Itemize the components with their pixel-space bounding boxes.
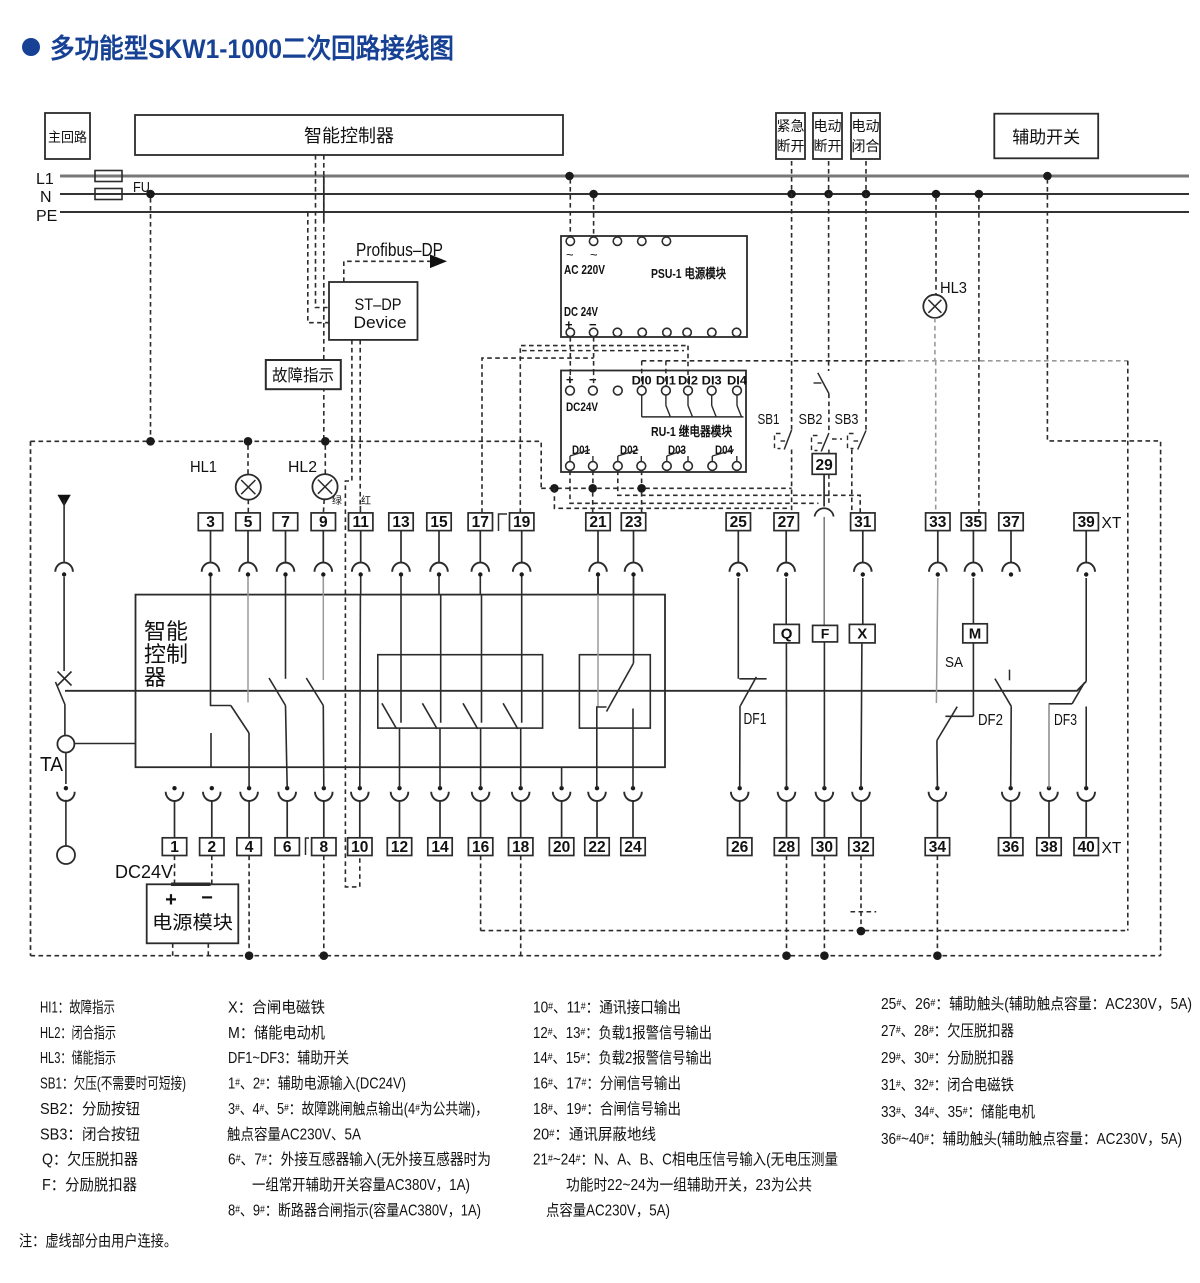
box: emergency-open button 紧急断开: [776, 113, 805, 159]
svg-text:X：合闸电磁铁: X：合闸电磁铁: [228, 999, 325, 1017]
svg-text:12: 12: [391, 839, 408, 856]
connector plug under terminal 15: [438, 531, 440, 563]
wire: module out b: [207, 943, 209, 955]
svg-text:XT: XT: [1102, 840, 1122, 857]
terminal 25 box: [726, 513, 750, 531]
wire: terminal 32 drop: [860, 856, 862, 932]
box: intelligent controller top 智能控制器: [135, 115, 563, 155]
svg-text:31: 31: [854, 514, 872, 531]
wire: L1 tap right loop to bottom bus: [1047, 179, 1160, 956]
wire: bus y488 to SB1: [541, 487, 791, 489]
connector plug under terminal 31: [862, 531, 864, 563]
svg-text:注：虚线部分由用户连接。: 注：虚线部分由用户连接。: [19, 1232, 177, 1250]
node: SB1 N tap: [787, 190, 796, 199]
wire: PSU+ down to RU+: [569, 337, 571, 386]
node: term35 N tap: [975, 190, 984, 199]
svg-text:1#、2#：辅助电源输入(DC24V): 1#、2#：辅助电源输入(DC24V): [228, 1075, 406, 1093]
svg-text:F：分励脱扣器: F：分励脱扣器: [42, 1176, 137, 1194]
connector plug under terminal 19: [521, 531, 523, 563]
svg-text:智能: 智能: [144, 619, 188, 644]
wire: j1 to bus508 to SB1: [554, 488, 789, 508]
svg-text:电动: 电动: [852, 118, 880, 134]
coil Q undervoltage release: [774, 624, 799, 643]
wire: terminal 5 fixed contact: [247, 595, 249, 703]
wire: terminal 39 feed: [1085, 578, 1087, 681]
wire: aux contact to SB2: [828, 394, 830, 434]
node: bus955 j4: [245, 951, 254, 960]
wire: RU D01a to bus503: [570, 471, 819, 504]
wire: PSU aux dashed segment: [522, 350, 684, 352]
terminal 34 box: [925, 838, 949, 856]
svg-text:DF1~DF3：辅助开关: DF1~DF3：辅助开关: [228, 1049, 349, 1067]
wire: RU D02b drop: [641, 471, 643, 489]
wire: F to terminal 30: [823, 642, 825, 788]
terminal 18 box: [509, 838, 533, 856]
connector plug above terminal 34: [935, 786, 939, 790]
transformer TA primary circle: [57, 736, 74, 753]
wire: module out a: [172, 943, 174, 955]
arrow: incoming feeder: [57, 495, 70, 507]
svg-text:PE: PE: [36, 208, 57, 225]
terminal 14 box: [428, 838, 452, 856]
wire: relay1 top feed 13: [400, 595, 402, 723]
terminal 39 box: [1074, 513, 1098, 531]
connector plug under terminal 33: [937, 531, 939, 563]
terminal 5 box: [236, 513, 260, 531]
svg-text:36: 36: [1002, 839, 1020, 856]
fuse FU on N: [95, 189, 122, 200]
pins: PSU bottom: [566, 328, 574, 336]
terminal 32 box: [849, 838, 873, 856]
wire: motor-open drop: [828, 161, 830, 371]
connector plug above terminal 16: [478, 786, 482, 790]
wire: bottom bus y955: [31, 955, 1161, 957]
switches: DI inputs: [641, 395, 643, 417]
svg-text:27#、28#：欠压脱扣器: 27#、28#：欠压脱扣器: [881, 1022, 1014, 1040]
wire: HL2 drop: [324, 445, 326, 474]
connector plug above terminal 1: [172, 786, 176, 790]
svg-text:~: ~: [566, 247, 574, 262]
box: main-circuit 主回路: [45, 113, 90, 159]
svg-text:器: 器: [144, 665, 166, 690]
wire: terminal 21 inner gray: [597, 578, 599, 595]
wire: relay1 top feed 17: [481, 595, 483, 723]
terminal 16 box: [468, 838, 492, 856]
node: lamp bus HL1 junction: [244, 437, 253, 446]
terminal 17 box: [468, 513, 492, 531]
box: DC24V power module 电源模块: [147, 884, 239, 943]
svg-text:功能时22~24为一组辅助开关，23为公共: 功能时22~24为一组辅助开关，23为公共: [566, 1176, 812, 1194]
svg-text:SB3: SB3: [835, 411, 859, 428]
arrowhead profibus: [430, 255, 447, 269]
terminal 29 box: [812, 454, 836, 475]
svg-text:32: 32: [852, 839, 869, 856]
box: PSU-1 power module: [561, 236, 747, 337]
wire: right vertical x1128: [1127, 361, 1129, 931]
switch SB1 undervoltage release button: [784, 430, 791, 450]
connector plug under terminal 37: [1010, 531, 1012, 563]
transformer TA secondary circle: [57, 846, 75, 864]
terminal 37 box: [999, 513, 1023, 531]
wire: SB2 dashed beside 29: [828, 450, 830, 454]
box: motor-close button 电动闭合: [851, 113, 880, 159]
wire: terminal 6 inner: [286, 706, 288, 789]
wire: PSU+ branch to terminal 19: [520, 346, 688, 513]
wire: terminal 9 feed: [322, 595, 324, 680]
lamp HL2: [312, 474, 337, 499]
wire: plug29 to F: [823, 517, 825, 626]
node: PSU N tap: [589, 190, 598, 199]
svg-text:SA: SA: [945, 654, 963, 671]
terminal 7 box: [273, 513, 297, 531]
terminal 2 box: [200, 838, 224, 856]
wire: relay1 top feed 19: [521, 595, 523, 723]
svg-text:9: 9: [319, 514, 328, 531]
node: bus488 j1: [550, 484, 559, 493]
connector plug above terminal 30: [822, 786, 826, 790]
connector plug under terminal 35: [972, 531, 974, 563]
connector plug above terminal 24: [631, 786, 635, 790]
connector plug above terminal 10: [358, 786, 362, 790]
node: FU junction on N: [146, 190, 155, 199]
svg-text:39: 39: [1078, 514, 1096, 531]
node: bus955 j34: [933, 951, 942, 960]
wire: emergency-open drop to SB1: [791, 161, 793, 430]
terminal 23 box: [621, 513, 645, 531]
svg-text:HL2：闭合指示: HL2：闭合指示: [40, 1024, 116, 1042]
wire: pivot to terminal 22: [597, 707, 607, 788]
svg-text:智能控制器: 智能控制器: [304, 126, 394, 146]
wire: RU D01b drop: [592, 471, 594, 489]
svg-text:RU-1 继电器模块: RU-1 继电器模块: [651, 424, 733, 439]
connector plug above terminal 4: [247, 786, 251, 790]
svg-text:34: 34: [929, 839, 947, 856]
svg-text:HL3: HL3: [940, 280, 967, 297]
svg-text:断开: 断开: [777, 138, 805, 154]
connector: TA plug: [64, 786, 68, 790]
wire: terminal 3 feed: [211, 595, 231, 706]
wire: PSU- down to RU-: [593, 337, 595, 386]
connector plug above terminal 22: [595, 786, 599, 790]
switch: relay contact 19-18: [503, 703, 518, 729]
connector plug above terminal 26: [738, 786, 742, 790]
tick: crossover mark on 32 drop: [851, 911, 877, 913]
svg-text:11: 11: [353, 514, 370, 531]
svg-text:点容量AC230V，5A): 点容量AC230V，5A): [546, 1201, 670, 1219]
node: bus955 j30: [820, 951, 829, 960]
box: motor-open button 电动断开: [813, 113, 842, 159]
wire: controller drop x315.5 to ST-DP: [316, 155, 330, 308]
connector: feeder plug: [55, 563, 73, 572]
connector: terminal 29 plug: [815, 508, 834, 516]
svg-text:紧急: 紧急: [777, 118, 805, 134]
connector plug above terminal 6: [285, 786, 289, 790]
wire: HL3 drop: [935, 197, 937, 295]
terminal 15 box: [427, 513, 451, 531]
terminal 10 box: [348, 838, 372, 856]
svg-text:15: 15: [430, 514, 448, 531]
connector plug above terminal 2: [210, 786, 214, 790]
svg-text:DC24V: DC24V: [115, 861, 174, 882]
svg-text:8#、9#：断路器合闸指示(容量AC380V，1A): 8#、9#：断路器合闸指示(容量AC380V，1A): [228, 1201, 481, 1219]
connector plug above terminal 38: [1047, 786, 1051, 790]
connector plug above terminal 36: [1009, 786, 1013, 790]
terminal 40 box: [1074, 838, 1098, 856]
wire: terminal 8 inner: [322, 706, 325, 789]
wire: PE drop x307.8 to ST-DP: [308, 212, 329, 323]
wire: N rail: [60, 193, 1189, 195]
terminal 6 box: [275, 838, 299, 856]
node: bus488 j2 D01b: [588, 484, 597, 493]
svg-text:29#、30#：分励脱扣器: 29#、30#：分励脱扣器: [881, 1049, 1014, 1067]
svg-text:38: 38: [1040, 839, 1058, 856]
switch: relay contact 17-16: [463, 703, 478, 729]
wire: terminal 8 drop: [323, 856, 325, 956]
svg-text:DF2: DF2: [978, 712, 1003, 729]
node: PSU L1 tap: [565, 172, 574, 181]
terminal 31 box: [851, 513, 875, 531]
svg-text:L1: L1: [36, 171, 54, 188]
svg-text:1: 1: [170, 839, 179, 856]
switch: contact 9-8: [306, 678, 323, 706]
svg-text:3#、4#、5#：故障跳闸触点输出(4#为公共端)，: 3#、4#、5#：故障跳闸触点输出(4#为公共端)，: [228, 1100, 488, 1118]
svg-text:16#、17#：分闸信号输出: 16#、17#：分闸信号输出: [533, 1075, 681, 1093]
wire: terminal 35 to M: [972, 578, 974, 624]
wire: relay1 bottom 18: [520, 728, 522, 788]
svg-text:Q: Q: [781, 626, 793, 643]
svg-text:6#、7#：外接互感器输入(无外接互感器时为: 6#、7#：外接互感器输入(无外接互感器时为: [228, 1151, 491, 1169]
svg-text:13: 13: [392, 514, 410, 531]
wire: terminal 40 tail: [1085, 707, 1087, 789]
connector plug above terminal 20: [559, 786, 563, 790]
connector plug above terminal 8: [322, 786, 326, 790]
connector plug under terminal 17: [479, 531, 481, 563]
svg-text:33: 33: [929, 514, 947, 531]
svg-text:5: 5: [244, 514, 253, 531]
wire: L1 rail: [60, 175, 1189, 178]
coil F shunt release: [813, 625, 838, 642]
separator tick between 17 19: [499, 514, 508, 531]
switch: contact 7-6: [269, 678, 286, 706]
svg-text:M: M: [969, 626, 982, 643]
breaker: main X contact: [58, 672, 72, 686]
svg-text:22: 22: [588, 839, 605, 856]
motor M storage: [963, 624, 988, 643]
connector plug under terminal 27: [785, 531, 787, 563]
wire: terminal 11-10 through line: [359, 595, 362, 788]
svg-text:PSU-1 电源模块: PSU-1 电源模块: [651, 266, 727, 281]
svg-text:10#、11#：通讯接口输出: 10#、11#：通讯接口输出: [533, 999, 681, 1017]
switch DF2 changeover: [937, 707, 957, 741]
svg-text:电动: 电动: [814, 118, 842, 134]
wires: plug stubs into controller box: [210, 577, 212, 595]
svg-text:SB2：分励按钮: SB2：分励按钮: [40, 1100, 140, 1118]
svg-text:TA: TA: [40, 754, 64, 776]
svg-text:Device: Device: [354, 313, 407, 332]
node: bus955 j28: [782, 951, 791, 960]
coil X closing electromagnet: [849, 624, 875, 643]
separator tick between 6 8: [306, 838, 310, 855]
wire: main contact line: [65, 681, 1086, 690]
node: SB3 N tap: [862, 190, 871, 199]
pins: PSU top: [566, 237, 574, 245]
connector plug above terminal 40: [1084, 786, 1088, 790]
contacts: RU relay outputs D01-D04: [566, 462, 575, 471]
wire: bus360 to terminal 33: [935, 361, 937, 513]
svg-text:DF3: DF3: [1054, 712, 1077, 729]
wire: Q to terminal 28: [785, 643, 787, 788]
connector plug under terminal 21: [597, 531, 599, 563]
wire: terminal 34 drop: [936, 856, 938, 956]
svg-text:AC 220V: AC 220V: [564, 263, 606, 277]
svg-text:12#、13#：负载1报警信号输出: 12#、13#：负载1报警信号输出: [533, 1024, 712, 1042]
terminal 38 box: [1037, 838, 1061, 856]
svg-text:HI1：故障指示: HI1：故障指示: [40, 999, 115, 1017]
svg-text:25#、26#：辅助触头(辅助触点容量：AC230V，5A): 25#、26#：辅助触头(辅助触点容量：AC230V，5A): [881, 995, 1192, 1013]
connector plug under terminal 25: [737, 531, 739, 563]
svg-text:23: 23: [625, 514, 643, 531]
switch DF3 auxiliary: [1049, 703, 1072, 705]
svg-text:闭合: 闭合: [852, 138, 880, 154]
svg-text:控制: 控制: [144, 642, 188, 667]
connector plug under terminal 5: [247, 531, 249, 563]
wire: profibus dashed arrow line: [344, 261, 430, 282]
connector plug under terminal 9: [322, 531, 324, 563]
svg-text:25: 25: [730, 514, 748, 531]
node: bus930 j32: [857, 927, 866, 936]
wire: SB3 to terminal 31: [851, 450, 853, 513]
node: lamp bus FU junction: [146, 437, 155, 446]
terminal 19 box: [510, 513, 534, 531]
wire: terminal 24 inner: [632, 709, 634, 789]
switch: aux contact above SB2: [818, 373, 829, 394]
terminal 8 box: [312, 838, 336, 856]
svg-text:35: 35: [965, 514, 983, 531]
wire: stub into DI2: [687, 346, 689, 386]
svg-text:7: 7: [281, 514, 290, 531]
svg-text:30: 30: [816, 839, 833, 856]
wire: controller drop x323.8 to lamp bus: [323, 155, 325, 441]
wire: relay1 bottom 12: [399, 728, 401, 788]
svg-text:27: 27: [778, 514, 795, 531]
switch: voltage contact 23-22: [607, 663, 634, 711]
svg-text:24: 24: [624, 839, 642, 856]
terminal 3 box: [198, 513, 222, 531]
wire: DI bus y360: [642, 360, 900, 362]
terminal 12 box: [387, 838, 411, 856]
svg-text:40: 40: [1078, 839, 1095, 856]
svg-text:10: 10: [351, 839, 368, 856]
wire: terminal 2 to module: [211, 856, 213, 885]
node: lamp bus HL2 junction: [321, 437, 330, 446]
wire: FU drop to lamp bus: [150, 198, 152, 441]
svg-text:33#、34#、35#：储能电机: 33#、34#、35#：储能电机: [881, 1103, 1035, 1121]
wire: HL1 to terminal 5: [247, 500, 249, 513]
switch: DF2 second pole: [1009, 670, 1011, 681]
wire: DF1 to terminal 26: [739, 706, 741, 788]
wire: relay1 bottom 16: [480, 728, 482, 788]
wire: terminal 27 to Q: [785, 578, 787, 624]
terminal 4 box: [237, 838, 261, 856]
connector plug under terminal 39: [1085, 531, 1087, 563]
wire: HL3 to bus360: [934, 318, 936, 361]
svg-text:+: +: [165, 889, 177, 911]
svg-text:2: 2: [207, 839, 216, 856]
connector plug above terminal 28: [784, 786, 788, 790]
connector plug above terminal 18: [519, 786, 523, 790]
svg-text:HL2: HL2: [288, 459, 317, 476]
pins: RU top: [566, 386, 575, 395]
connector plug under terminal 7: [285, 531, 287, 563]
svg-text:ST–DP: ST–DP: [355, 295, 402, 314]
wire: TA tail: [65, 800, 67, 846]
wire: HL1 drop: [247, 445, 249, 474]
wire: M down to DF2: [972, 643, 974, 716]
svg-text:SB1: SB1: [758, 411, 780, 428]
wire: lamp bus y441: [31, 441, 542, 488]
wire: DF3 to terminal 38: [1048, 704, 1050, 788]
svg-text:14: 14: [431, 839, 449, 856]
svg-text:~: ~: [590, 247, 598, 262]
wire: N to PSU pin2: [593, 197, 595, 237]
wire: terminal 20 inner: [561, 767, 563, 788]
node: SB2 N tap: [824, 190, 833, 199]
wire: DI bus stubs: [641, 361, 643, 386]
wire: relay1 bottom 14: [439, 728, 441, 788]
node: aux L1 tap: [1043, 172, 1052, 181]
svg-text:一组常开辅助开关容量AC380V，1A): 一组常开辅助开关容量AC380V，1A): [252, 1176, 470, 1194]
svg-text:主回路: 主回路: [48, 130, 87, 145]
terminal 11 box: [349, 513, 373, 531]
wire: HL2 to terminal 9: [322, 499, 325, 513]
svg-text:37: 37: [1002, 514, 1019, 531]
wire: RU D02a to bus495 to terminal 31: [618, 471, 860, 513]
connector plug above terminal 14: [438, 786, 442, 790]
wire: terminal 18 drop: [520, 856, 522, 956]
svg-text:Profibus–DP: Profibus–DP: [356, 240, 443, 260]
terminal 33 box: [926, 513, 950, 531]
terminal 30 box: [812, 838, 836, 856]
box: inner relay group 2: [579, 655, 650, 728]
wire: N tap to terminal 35: [978, 197, 980, 513]
wire: motor-close drop: [865, 161, 867, 431]
svg-text:DF1: DF1: [744, 711, 767, 728]
wire: terminal 7 feed: [285, 595, 287, 679]
svg-text:红: 红: [361, 494, 371, 507]
svg-text:SB3：闭合按钮: SB3：闭合按钮: [40, 1125, 140, 1143]
wire: bus488 drop to terminal 23: [641, 492, 643, 513]
terminal 24 box: [621, 838, 645, 856]
wire: ST-DP drop red to terminal 11: [359, 340, 361, 506]
box: RU-1 relay module: [561, 371, 746, 473]
svg-text:19: 19: [513, 514, 531, 531]
connector plug above terminal 32: [859, 786, 863, 790]
wire: feeder to breaker: [63, 577, 65, 671]
svg-text:DI3: DI3: [702, 374, 722, 388]
svg-text:29: 29: [815, 457, 833, 474]
box: inner relay group 1: [378, 655, 543, 728]
switch SB3 close button: [858, 431, 866, 450]
connector plug under terminal 3: [210, 531, 212, 563]
svg-text:Q：欠压脱扣器: Q：欠压脱扣器: [42, 1151, 138, 1169]
wire: relay1 top feed 15: [440, 595, 442, 723]
terminal 21 box: [586, 513, 610, 531]
fuse FU on L1: [95, 171, 122, 182]
wire: terminal 31 to X: [862, 578, 864, 624]
terminal 26 box: [728, 838, 752, 856]
wire: PE rail: [60, 211, 1189, 213]
svg-text:F: F: [821, 625, 830, 641]
